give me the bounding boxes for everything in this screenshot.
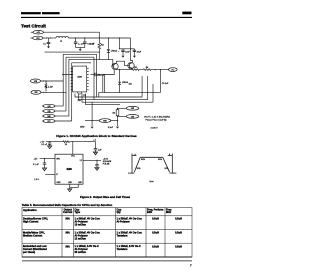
svg-text:Figure 1. RC4190 Application B: Figure 1. RC4190 Application Block to St… — [56, 134, 137, 138]
svg-text:Medium Current: Medium Current — [23, 234, 42, 237]
svg-text:GND: GND — [80, 127, 85, 129]
emitter wire — [116, 68, 132, 71]
svg-text:per Class): per Class) — [23, 251, 35, 254]
ground GA below IC — [80, 102, 94, 129]
wire R3 to R4 — [139, 69, 143, 71]
baseline right — [170, 172, 177, 174]
svg-text:1M: 1M — [112, 113, 115, 115]
wire right pin — [83, 160, 97, 164]
resistor R1 vertical — [45, 81, 53, 91]
terminal T10 — [42, 119, 72, 123]
svg-text:SQUARE: SQUARE — [103, 160, 112, 163]
svg-text:0.1 uF: 0.1 uF — [33, 164, 39, 166]
svg-text:VIN: VIN — [36, 38, 40, 40]
svg-text:0.5uH: 0.5uH — [175, 232, 182, 235]
wire to T11 — [85, 120, 99, 122]
svg-text:Current: Current — [63, 211, 72, 214]
terminal T3 VOUT — [169, 68, 178, 72]
svg-text:10%: 10% — [164, 168, 168, 170]
wire Q1 collector to Q2 base — [116, 61, 127, 65]
wire after L1 — [68, 37, 130, 39]
header left text — [21, 12, 60, 14]
cap CX right of IC — [91, 73, 102, 77]
svg-text:ESR: ESR — [147, 211, 152, 214]
terminal T12 — [118, 106, 139, 110]
rising edge — [134, 157, 140, 172]
ground GB — [108, 127, 119, 129]
falling edge — [163, 157, 170, 172]
svg-text:C8 1uF: C8 1uF — [162, 83, 169, 85]
tf arrow — [168, 155, 173, 157]
+5V supply label — [40, 141, 45, 143]
svg-text:Test Circuit: Test Circuit — [21, 24, 46, 29]
svg-text:Table 5. Recommended Bulk Capa: Table 5. Recommended Bulk Capacitors for… — [22, 203, 113, 207]
svg-text:4 100 V: 4 100 V — [151, 128, 159, 130]
nest wire B — [79, 76, 148, 100]
wire to output terminal — [151, 69, 169, 71]
top wire — [46, 141, 63, 143]
+5V label upper right — [93, 139, 97, 141]
formula text — [144, 116, 171, 129]
terminal T11 — [99, 119, 117, 123]
svg-text:VOUT = 1.31 V (R1+R2)/R2: VOUT = 1.31 V (R1+R2)/R2 — [144, 116, 171, 118]
table row 3 — [23, 245, 182, 254]
svg-text:10 mOhm: 10 mOhm — [75, 223, 87, 226]
svg-text:10uF: 10uF — [137, 52, 142, 54]
wire R2 bottom — [98, 49, 100, 60]
resistor R2 — [98, 43, 101, 49]
transistor Q1 — [97, 59, 118, 76]
svg-text:12 mOhm: 12 mOhm — [75, 237, 87, 240]
terminal T7 — [42, 104, 63, 108]
terminal T9 — [42, 114, 69, 118]
svg-text:Tantalum: Tantalum — [117, 234, 129, 237]
svg-text:MHz: MHz — [166, 211, 172, 214]
svg-text:Application: Application — [23, 209, 37, 212]
cap at output — [95, 165, 98, 168]
caption figure 1 — [56, 134, 137, 138]
page number — [190, 263, 192, 267]
header rule — [21, 16, 192, 18]
wire T1 top — [43, 32, 99, 42]
wire after resistor — [70, 142, 96, 149]
wire T5 — [41, 80, 64, 82]
svg-text:0.1uF: 0.1uF — [108, 127, 114, 129]
nest right verticals — [94, 54, 97, 99]
inductor L1 — [56, 36, 68, 38]
right vertical — [171, 154, 173, 174]
svg-text:1+ 10: 1+ 10 — [78, 44, 84, 46]
svg-text:Qty: Qty — [117, 211, 122, 214]
ground bus under caps — [76, 47, 85, 49]
capacitor C2 branch — [74, 38, 85, 48]
svg-text:0.5uH: 0.5uH — [152, 245, 159, 248]
IC U2 box — [55, 154, 83, 184]
svg-text:0.5uH: 0.5uH — [175, 245, 182, 248]
header right text — [182, 12, 191, 15]
resistor R5 box — [112, 108, 118, 126]
svg-text:Please Place 0.1uF By: Please Place 0.1uF By — [146, 119, 168, 121]
ground triangle right — [93, 152, 97, 155]
nest wire A — [75, 76, 142, 97]
left +5V branch label — [34, 158, 38, 160]
svg-text:VRF: VRF — [34, 92, 37, 94]
transistor Q2 — [127, 62, 134, 69]
svg-text:Al-Polymer: Al-Polymer — [117, 220, 130, 223]
svg-text:90%: 90% — [141, 159, 145, 161]
svg-text:N/A: N/A — [66, 245, 71, 248]
svg-text:2k: 2k — [65, 144, 67, 146]
wire left mid to IC — [62, 74, 73, 76]
capacitor 1uF right — [94, 149, 102, 152]
table grid — [22, 208, 192, 258]
wire to left pin 1 — [40, 157, 55, 159]
terminal T6 — [31, 90, 41, 94]
ground symbol bus — [79, 48, 81, 50]
svg-text:10k: 10k — [129, 84, 132, 86]
node dots base bus — [99, 59, 100, 60]
capacitor C4 branch — [118, 49, 130, 58]
nest left verticals — [63, 54, 90, 121]
svg-text:GND: GND — [57, 182, 62, 184]
resistor Rt — [63, 141, 69, 143]
bottom pin wires — [70, 184, 79, 187]
resistor R4 — [143, 69, 151, 71]
svg-text:Tantalum: Tantalum — [117, 248, 129, 251]
IC U1 body — [73, 66, 87, 94]
left vertical — [131, 154, 133, 174]
svg-text:PULSE: PULSE — [103, 164, 110, 166]
svg-text:+5V: +5V — [34, 158, 38, 160]
table row 2 — [23, 232, 182, 241]
svg-text:Figure 2. Output Rise and Fall: Figure 2. Output Rise and Fall Times — [80, 195, 130, 199]
footer rule — [22, 260, 192, 262]
capacitor 0.1uF left — [33, 158, 46, 168]
IC left pins — [71, 68, 73, 89]
ground triangle output — [95, 168, 99, 171]
wire cap bus — [120, 38, 135, 49]
svg-text:12k: 12k — [78, 100, 81, 102]
svg-text:0.5uH: 0.5uH — [152, 218, 159, 221]
svg-text:VO: VO — [171, 70, 174, 72]
terminal T8 — [42, 109, 66, 113]
svg-text:High Current: High Current — [23, 220, 38, 223]
ground triangle bottom — [68, 188, 72, 192]
svg-text:0.5uH: 0.5uH — [152, 232, 159, 235]
terminal T13 — [118, 115, 139, 119]
svg-text:0.5uH: 0.5uH — [175, 218, 182, 221]
wire T2 main — [43, 37, 56, 39]
wire T6 — [41, 91, 66, 93]
ground triangle top left — [48, 146, 52, 149]
table row 1 — [23, 218, 182, 227]
svg-text:Type: Type — [75, 211, 81, 214]
diode D1 vertical — [107, 38, 118, 59]
C8 loop wire — [99, 70, 161, 97]
capacitor C3 branch — [83, 38, 95, 48]
wire left pin 2 — [45, 174, 55, 176]
capacitor 0.1uF top left — [41, 142, 51, 146]
node dots on main wire — [75, 37, 76, 38]
wire Q1 collector drop — [103, 70, 114, 93]
baseline left — [128, 172, 134, 174]
terminal T1 (+6V) — [31, 30, 44, 34]
wire top right corner down — [131, 38, 133, 62]
nest above IC — [63, 54, 113, 59]
svg-text:0.33 uF: 0.33 uF — [87, 44, 95, 46]
capacitor C1 branch — [43, 38, 50, 46]
svg-text:1N914: 1N914 — [111, 51, 118, 53]
caption figure 2 — [80, 195, 130, 199]
capacitor C5 branch — [133, 49, 142, 58]
svg-text:10%: 10% — [137, 168, 141, 170]
svg-text:N/A: N/A — [66, 232, 71, 235]
svg-text:t (us): t (us) — [149, 180, 154, 183]
terminal T5 — [31, 79, 41, 83]
table bottom border thick — [22, 256, 192, 258]
diode D2 — [118, 70, 129, 93]
svg-text:R1 1.4M: R1 1.4M — [45, 86, 53, 88]
svg-text:25 mOhm: 25 mOhm — [75, 251, 87, 254]
node dot — [46, 37, 47, 38]
svg-text:N/A: N/A — [66, 218, 71, 221]
flat top — [140, 156, 163, 158]
nest wire C — [82, 84, 153, 102]
ground triangle left — [42, 168, 46, 171]
svg-text:0.1 uF: 0.1 uF — [41, 144, 47, 146]
ground for C1 — [47, 46, 50, 48]
svg-text:4190: 4190 — [66, 168, 72, 171]
svg-text:+ 5V: + 5V — [40, 141, 45, 143]
table title — [22, 203, 113, 207]
table header text — [23, 208, 172, 214]
ground bus wire — [45, 51, 100, 53]
tr arrow — [132, 155, 137, 157]
IC bottom pin vertical — [86, 94, 121, 105]
output labels — [103, 158, 112, 165]
svg-text:90%: 90% — [158, 159, 162, 161]
resistor R3 — [132, 69, 140, 71]
IC right pins — [87, 68, 89, 89]
terminal T2 (VIN) — [30, 36, 43, 40]
wire into IC top — [72, 142, 74, 155]
heading Test Circuit — [21, 24, 46, 29]
svg-text:10uF: 10uF — [125, 52, 130, 54]
